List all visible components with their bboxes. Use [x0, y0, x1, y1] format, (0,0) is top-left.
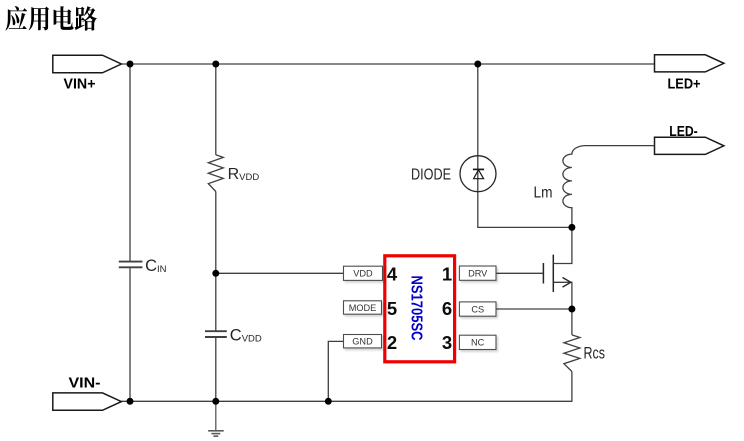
node CVDD bottom junction — [212, 398, 219, 405]
wire left branch CIN lower — [129, 268, 131, 402]
svg-text:5: 5 — [387, 298, 397, 319]
svg-text:6: 6 — [442, 298, 452, 319]
wire top rail VIN+ to LED+ — [121, 63, 654, 65]
connector LED- — [655, 137, 724, 154]
svg-text:NS1705SC: NS1705SC — [408, 276, 425, 341]
node RVDD top junction — [212, 61, 219, 68]
svg-text:VIN+: VIN+ — [64, 77, 96, 93]
svg-text:Rcs: Rcs — [584, 345, 606, 363]
svg-text:LED-: LED- — [669, 124, 698, 140]
capacitor CIN — [119, 262, 143, 268]
node drain/Lm junction — [568, 224, 575, 231]
wire DRV to gate — [496, 272, 544, 274]
wire diode branch — [478, 64, 572, 227]
connector VIN+ — [53, 55, 122, 73]
wire source to CS node — [553, 282, 572, 309]
wire CVDD to bottom rail — [215, 337, 217, 401]
node GND return junction — [325, 398, 332, 405]
pin box GND — [344, 335, 382, 348]
svg-text:MODE: MODE — [349, 303, 377, 313]
svg-text:DIODE: DIODE — [411, 167, 451, 184]
diode D1 circle — [460, 156, 496, 192]
wire RVDD branch upper — [215, 64, 217, 155]
svg-text:2: 2 — [387, 332, 397, 353]
connector LED+ — [655, 55, 724, 72]
wire left branch CIN upper — [129, 64, 131, 261]
diode D1 symbol — [473, 169, 484, 178]
svg-text:DRV: DRV — [468, 269, 488, 279]
wire drain riser — [553, 227, 572, 263]
transistor Q1 gate bar — [542, 263, 544, 284]
inductor Lm — [563, 146, 655, 228]
svg-text:4: 4 — [387, 264, 398, 285]
transistor Q1 source arrow — [563, 278, 571, 288]
wire Rcs to bottom rail — [571, 372, 573, 402]
wire GND pin — [328, 341, 343, 401]
wire CS node to Rcs — [571, 309, 573, 335]
ground — [208, 401, 224, 436]
op IC U1 NS1705SC body — [385, 256, 455, 362]
transistor Q1 channel bar — [552, 255, 554, 292]
wire RVDD to CVDD — [215, 192, 217, 332]
title 应用电路 — [5, 6, 97, 31]
wire bottom rail VIN- — [121, 400, 572, 402]
node CS junction — [568, 306, 575, 313]
node VIN-/CIN junction — [127, 398, 134, 405]
pin box DRV — [459, 266, 496, 280]
node VDD junction — [212, 270, 219, 277]
svg-text:CS: CS — [471, 304, 484, 314]
wire CS pin — [496, 308, 572, 310]
svg-text:GND: GND — [352, 337, 373, 347]
pin box MODE — [344, 301, 382, 314]
capacitor CVDD — [205, 331, 227, 337]
svg-text:1: 1 — [442, 264, 452, 285]
node diode top junction — [474, 61, 481, 68]
svg-text:3: 3 — [442, 332, 452, 353]
connector VIN- — [53, 393, 122, 410]
resistor Rcs — [564, 335, 580, 372]
svg-text:VDD: VDD — [353, 269, 373, 279]
wire VDD pin — [216, 272, 344, 274]
svg-text:Lm: Lm — [534, 184, 553, 201]
svg-text:LED+: LED+ — [668, 77, 701, 93]
svg-text:NC: NC — [471, 338, 485, 348]
pin box NC — [459, 335, 496, 349]
pin box VDD — [344, 266, 383, 280]
node VIN+/CIN junction — [127, 61, 134, 68]
svg-text:VIN-: VIN- — [69, 375, 101, 391]
resistor RVDD — [208, 155, 223, 192]
pin box CS — [459, 302, 496, 316]
